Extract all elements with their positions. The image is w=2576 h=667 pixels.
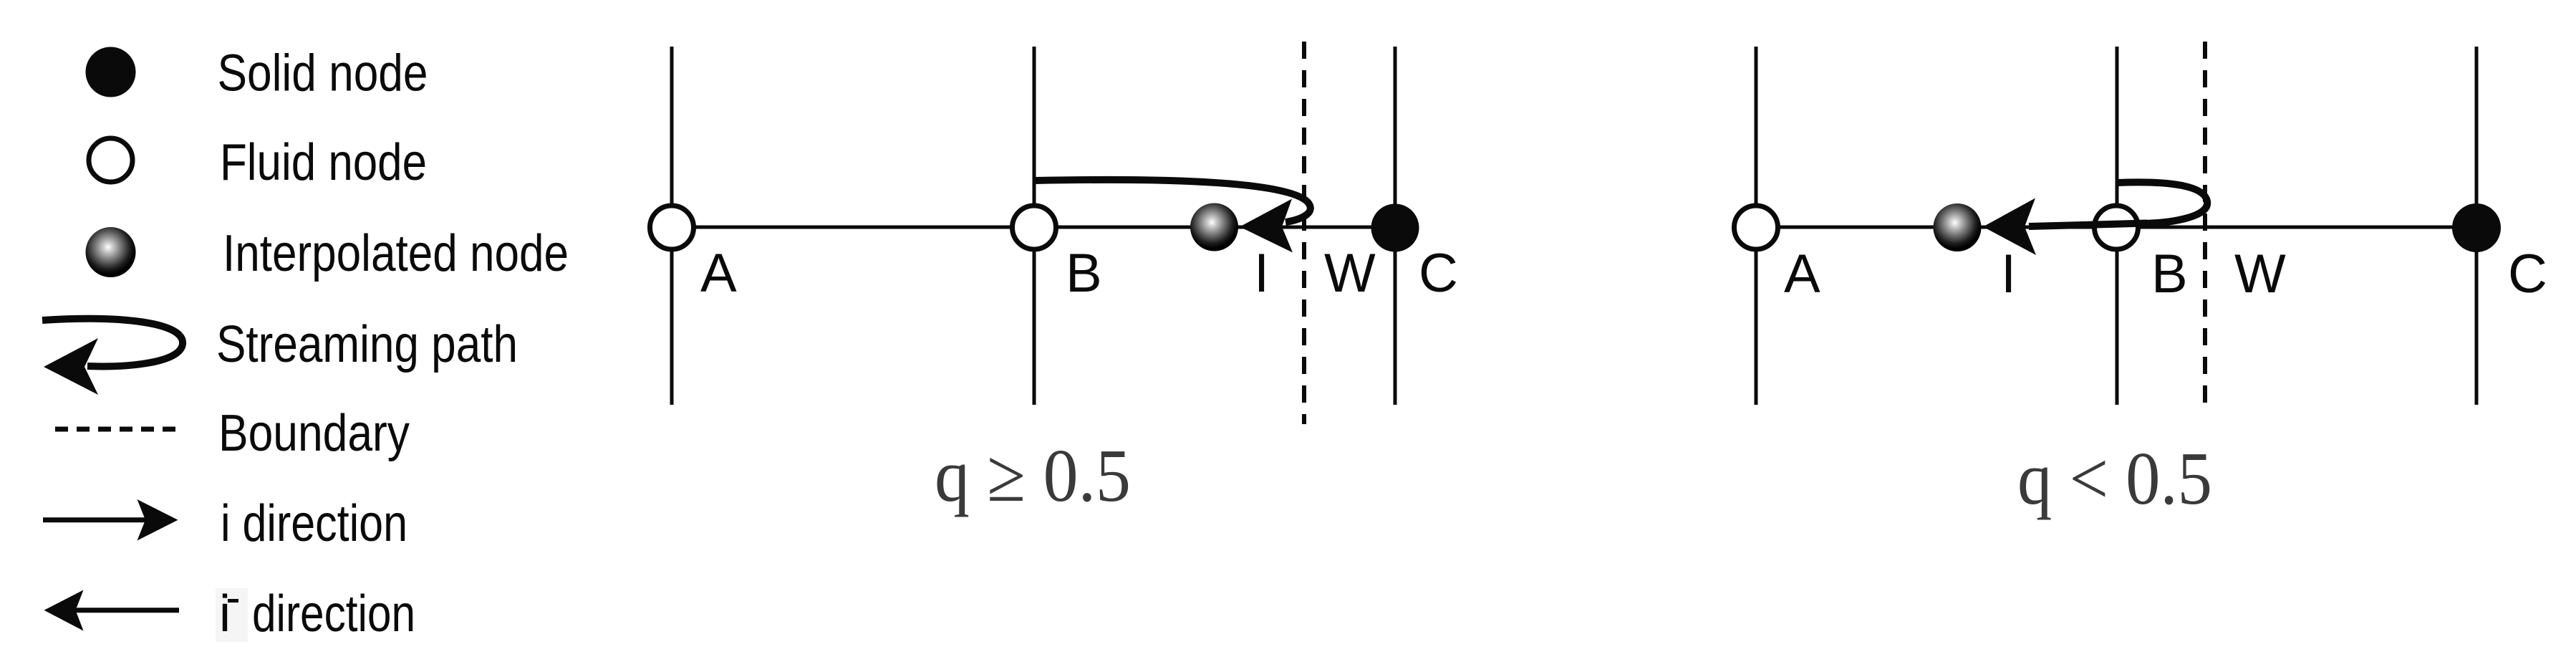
grid vertical line B2 bbox=[2116, 47, 2119, 405]
svg-text:B: B bbox=[2151, 244, 2188, 304]
svg-text:Fluid node: Fluid node bbox=[220, 134, 427, 191]
legend boundary dashed line bbox=[55, 427, 177, 432]
fluid node A2 bbox=[1735, 206, 1778, 249]
svg-text:C: C bbox=[2508, 244, 2547, 304]
interpolated node I bbox=[1190, 203, 1238, 251]
horizontal wire A2 to C2 bbox=[1756, 226, 2476, 229]
svg-text:Solid node: Solid node bbox=[218, 45, 428, 102]
fluid node B2 bbox=[2095, 206, 2138, 249]
grid vertical line C2 bbox=[2475, 47, 2479, 405]
boundary dashed line W bbox=[1302, 42, 1306, 424]
legend solid node icon bbox=[86, 47, 136, 97]
svg-text:A: A bbox=[1784, 244, 1820, 304]
svg-text:I: I bbox=[1254, 243, 1269, 304]
grid vertical line C bbox=[1394, 47, 1397, 405]
solid node C bbox=[1371, 204, 1419, 252]
svg-text:W: W bbox=[2234, 244, 2286, 304]
svg-text:W: W bbox=[1324, 243, 1376, 304]
legend i direction arrowhead bbox=[138, 499, 178, 541]
legend streaming path icon arrowhead bbox=[44, 338, 98, 395]
svg-text:Streaming path: Streaming path bbox=[216, 316, 518, 373]
streaming path curve from B bbox=[1035, 180, 1311, 222]
solid node C2 bbox=[2452, 203, 2501, 252]
legend i minus direction arrowhead bbox=[44, 590, 84, 631]
svg-text:A: A bbox=[700, 243, 737, 304]
grid vertical line A bbox=[670, 47, 674, 405]
svg-text:direction: direction bbox=[252, 585, 415, 643]
horizontal wire A to C bbox=[672, 226, 1395, 229]
streaming path arrowhead at I bbox=[1240, 199, 1293, 253]
streaming path arrowhead at I2 bbox=[1983, 198, 2036, 256]
faint box behind i- bbox=[216, 588, 248, 642]
legend i direction arrow line bbox=[43, 517, 152, 522]
fluid node B bbox=[1013, 206, 1056, 249]
legend interpolated node icon bbox=[86, 227, 136, 277]
legend fluid node icon bbox=[89, 138, 132, 182]
streaming path loop at B2 bbox=[2117, 182, 2207, 224]
svg-text:q < 0.5: q < 0.5 bbox=[2017, 436, 2212, 520]
fluid node A bbox=[650, 206, 694, 249]
svg-text:C: C bbox=[1419, 243, 1458, 304]
svg-text:I: I bbox=[2001, 244, 2016, 304]
svg-text:Interpolated node: Interpolated node bbox=[223, 225, 569, 282]
legend i minus direction arrow line bbox=[70, 608, 179, 613]
svg-text:Boundary: Boundary bbox=[218, 405, 410, 462]
svg-text:i: i bbox=[219, 585, 231, 643]
boundary dashed line W2 bbox=[2203, 42, 2207, 408]
interpolated node I2 bbox=[1934, 203, 1982, 251]
grid vertical line A2 bbox=[1755, 47, 1758, 405]
svg-text:B: B bbox=[1066, 243, 1102, 304]
svg-text:i direction: i direction bbox=[221, 495, 407, 552]
grid vertical line B bbox=[1033, 47, 1036, 405]
svg-text:q ≥ 0.5: q ≥ 0.5 bbox=[935, 433, 1131, 517]
streaming path shaft bbox=[2029, 224, 2147, 227]
legend streaming path icon curve bbox=[42, 319, 183, 367]
